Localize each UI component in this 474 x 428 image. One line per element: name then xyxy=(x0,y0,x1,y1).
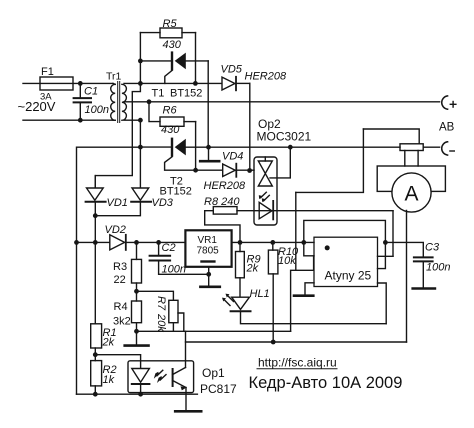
wire Op2 triac top xyxy=(270,147,290,178)
resistor R8 xyxy=(204,196,240,214)
capacitor C1 xyxy=(74,83,109,120)
svg-text:BT152: BT152 xyxy=(170,88,202,100)
node C1 top junction xyxy=(78,81,83,86)
wire mcu left pin row xyxy=(304,242,314,255)
wire mains top stub xyxy=(23,82,113,84)
wire R6 stem xyxy=(149,102,160,122)
regulator VR1 7805 xyxy=(185,230,231,286)
svg-text:7805: 7805 xyxy=(197,246,220,257)
svg-text:VR1: VR1 xyxy=(198,235,218,246)
node R5/T1 junction xyxy=(193,81,198,86)
resistor R9 xyxy=(236,242,261,297)
mcu Atyny 25 xyxy=(314,237,378,286)
light arrows xyxy=(157,370,163,375)
ground mcu xyxy=(294,283,314,296)
svg-text:A: A xyxy=(404,183,418,206)
triac symbol xyxy=(258,161,272,174)
wire divider row xyxy=(137,330,291,332)
transformer Tr1 xyxy=(106,71,126,123)
wire minus row (T2 anode to shunt) xyxy=(186,146,400,148)
svg-text:2k: 2k xyxy=(102,337,115,349)
svg-text:22: 22 xyxy=(114,274,126,286)
wire VD5 to VD4 link xyxy=(249,83,251,170)
thyristor T2 BT152 xyxy=(140,138,192,198)
diode VD5 HER208 xyxy=(221,64,287,91)
shunt loop top xyxy=(363,129,419,144)
resistor R10 xyxy=(268,242,299,342)
svg-text:F1: F1 xyxy=(41,66,54,78)
node R10 bottom xyxy=(271,340,276,345)
ammeter PA xyxy=(392,173,431,212)
wire secondary top tap xyxy=(124,82,140,84)
svg-text:HER208: HER208 xyxy=(245,71,287,83)
wire Vcc rail xyxy=(232,241,314,243)
secondary winding xyxy=(122,84,127,120)
led arrows xyxy=(261,192,267,198)
node VD2 row mid xyxy=(93,240,98,245)
svg-text:C2: C2 xyxy=(162,242,176,254)
svg-text:430: 430 xyxy=(163,39,182,51)
wire led row xyxy=(237,210,393,212)
diode VD1 xyxy=(86,176,128,216)
diode VD2 xyxy=(77,224,186,250)
capacitor C3 xyxy=(385,242,450,289)
svg-text:Кедр-Авто 10А 2009: Кедр-Авто 10А 2009 xyxy=(249,374,403,392)
fuse F1 xyxy=(40,66,73,103)
node C2 top xyxy=(156,240,161,245)
trimmer R7 xyxy=(155,296,184,332)
wire ammeter bottom xyxy=(406,211,408,343)
svg-text:~220V: ~220V xyxy=(18,99,56,114)
svg-text:VD4: VD4 xyxy=(222,151,243,163)
wire T1 anode drop xyxy=(207,61,209,147)
node VD4 row left xyxy=(193,168,198,173)
diode VD4 HER208 xyxy=(196,151,254,193)
wire sense to mcu path xyxy=(295,192,297,270)
node VR1 ground / C2 xyxy=(206,272,211,277)
wire center tap / plus line xyxy=(124,101,440,103)
node R3 R4 R7 xyxy=(134,289,139,294)
svg-text:100n: 100n xyxy=(162,264,186,276)
label site url xyxy=(257,356,337,370)
node C1 bottom junction xyxy=(78,118,83,123)
resistor R3 xyxy=(113,242,142,291)
led symbol xyxy=(259,202,272,219)
node R1 R2 xyxy=(93,352,98,357)
resistor R2 xyxy=(91,361,117,395)
svg-text:R6: R6 xyxy=(163,105,178,117)
primary winding xyxy=(111,84,115,120)
node VD4 cathode link xyxy=(247,168,252,173)
wire sense row xyxy=(186,341,407,343)
shunt resistor xyxy=(400,144,423,151)
wire VD1 node down xyxy=(94,216,96,324)
svg-text:C1: C1 xyxy=(84,86,98,98)
resistor R1 xyxy=(91,324,117,361)
svg-text:Atyny 25: Atyny 25 xyxy=(325,269,372,283)
svg-text:http://fsc.aiq.ru: http://fsc.aiq.ru xyxy=(258,356,337,370)
svg-text:2k: 2k xyxy=(246,263,259,275)
svg-text:AB: AB xyxy=(439,122,455,134)
terminal plus xyxy=(442,96,456,109)
led symbol xyxy=(132,369,150,383)
wire bottom rail xyxy=(77,393,198,395)
wire mcu reset pin xyxy=(378,242,386,268)
node center tap R6 stem xyxy=(147,99,152,104)
node rail secondary top xyxy=(138,81,143,86)
svg-text:Tr1: Tr1 xyxy=(106,71,122,83)
svg-text:C3: C3 xyxy=(425,242,440,254)
svg-text:R7: R7 xyxy=(155,296,167,311)
node secondary bottom xyxy=(138,118,143,123)
svg-text:VD3: VD3 xyxy=(152,197,174,209)
svg-text:R4: R4 xyxy=(114,301,128,313)
wire R6 right vertical xyxy=(195,122,197,171)
core xyxy=(117,82,119,123)
wire T1 gate xyxy=(165,71,172,84)
node R4 bottom xyxy=(134,329,139,334)
svg-text:HL1: HL1 xyxy=(250,288,270,300)
terminal minus xyxy=(442,142,455,155)
svg-text:100n: 100n xyxy=(85,104,109,116)
capacitor C2 xyxy=(150,242,209,276)
svg-text:100n: 100n xyxy=(426,262,450,274)
ground below R4 xyxy=(125,331,149,345)
wire mcu pin to divider xyxy=(291,256,314,331)
node VD1 cathode xyxy=(93,213,98,218)
svg-text:20k: 20k xyxy=(155,313,167,332)
resistor R5 xyxy=(140,18,195,51)
svg-text:MOC3021: MOC3021 xyxy=(257,130,312,144)
node Op2 triac drop xyxy=(288,145,293,150)
svg-text:HER208: HER208 xyxy=(204,180,246,192)
node T1 anode drop junction xyxy=(206,145,211,150)
wire minus to terminal xyxy=(423,146,439,148)
svg-text:10k: 10k xyxy=(278,255,296,267)
ammeter yoke xyxy=(377,166,445,191)
node rail T1 cathode xyxy=(138,59,143,64)
svg-text:430: 430 xyxy=(161,124,180,136)
svg-text:VD1: VD1 xyxy=(107,197,128,209)
node mcu loop right xyxy=(383,240,388,245)
resistor R6 xyxy=(160,105,196,137)
wire Op1 collector xyxy=(185,331,187,367)
wire shunt stems xyxy=(404,151,406,167)
node R10 top xyxy=(270,240,275,245)
optocoupler Op1 PC817 xyxy=(128,361,237,396)
resistor R4 xyxy=(113,291,142,331)
wire secondary bottom tap xyxy=(124,119,140,121)
svg-text:R8 240: R8 240 xyxy=(204,196,240,208)
wire VD1 VD3 cathode link xyxy=(95,203,140,216)
svg-text:1k: 1k xyxy=(103,374,115,386)
svg-text:Op1: Op1 xyxy=(202,366,225,380)
svg-text:VD2: VD2 xyxy=(105,224,126,236)
wire lower rail xyxy=(139,120,141,188)
node R2 bottom xyxy=(93,392,98,397)
svg-text:BT152: BT152 xyxy=(160,185,192,197)
wire T2 gate xyxy=(165,157,196,170)
led HL1 xyxy=(222,288,386,324)
svg-text:T1: T1 xyxy=(152,88,165,100)
wire left rail top (R5/T1) xyxy=(95,33,140,188)
optocoupler Op2 MOC3021 xyxy=(254,117,312,225)
wire R7 branch xyxy=(137,291,174,300)
ground below anode junction xyxy=(200,147,219,161)
svg-text:PC817: PC817 xyxy=(200,382,237,396)
wire R5 right vertical xyxy=(195,33,197,84)
wire R8 loop to Vcc xyxy=(205,211,240,243)
wire mcu pin to HL1 row xyxy=(378,283,387,324)
diode VD3 xyxy=(131,188,174,209)
svg-text:3k2: 3k2 xyxy=(113,316,131,328)
wire mcu out vertical xyxy=(392,211,394,257)
wire mcu right pin row xyxy=(378,255,394,257)
node T2 cathode rail xyxy=(138,145,143,150)
wire mains bottom stub xyxy=(23,119,113,121)
wire VD5 row xyxy=(140,82,222,84)
svg-text:R3: R3 xyxy=(113,261,127,273)
wire R1R2 to Op1 xyxy=(95,355,140,369)
wire Op1 emitter ground xyxy=(175,388,201,412)
node R3 top xyxy=(134,240,139,245)
svg-text:R5: R5 xyxy=(163,18,178,30)
transistor xyxy=(172,369,174,386)
wire shunt loop left xyxy=(296,129,364,192)
wire mcu top loop xyxy=(304,220,386,242)
node R9 top xyxy=(238,240,243,245)
wire left rail x77 xyxy=(77,147,141,394)
node VD2 row left xyxy=(74,240,79,245)
node mcu loop left xyxy=(301,240,306,245)
node Op1 led bottom xyxy=(138,392,143,397)
svg-text:VD5: VD5 xyxy=(221,64,243,76)
thyristor T1 BT152 xyxy=(140,51,208,99)
